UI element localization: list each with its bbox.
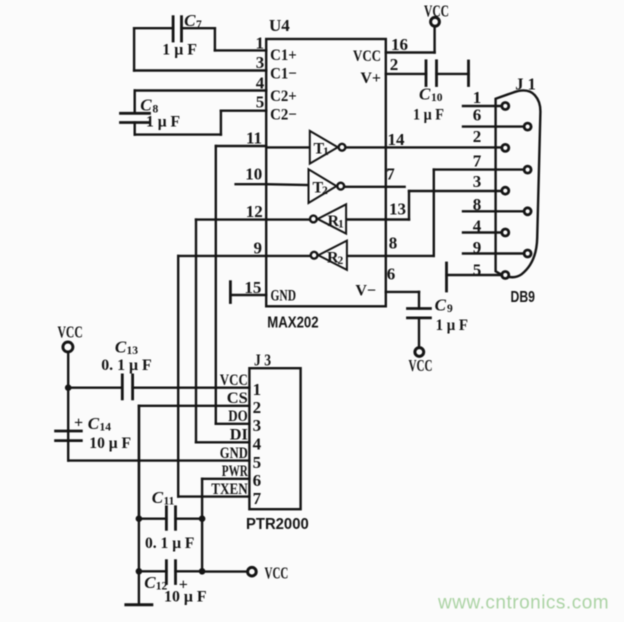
svg-text:10 μ F: 10 μ F: [164, 588, 207, 605]
svg-text:DO: DO: [228, 408, 248, 425]
svg-text:GND: GND: [220, 445, 248, 462]
svg-text:13: 13: [127, 345, 139, 357]
svg-text:14: 14: [100, 421, 112, 433]
svg-text:0. 1 μ F: 0. 1 μ F: [101, 357, 152, 374]
svg-text:C: C: [144, 573, 156, 592]
svg-text:1 μ F: 1 μ F: [162, 42, 197, 59]
svg-text:www.cntronics.com: www.cntronics.com: [437, 593, 609, 614]
svg-text:3: 3: [473, 172, 482, 191]
svg-text:8: 8: [389, 233, 398, 252]
svg-text:J 3: J 3: [254, 351, 271, 370]
svg-text:2: 2: [473, 127, 482, 146]
svg-text:4: 4: [253, 435, 262, 454]
svg-text:C: C: [115, 337, 127, 356]
svg-text:2: 2: [253, 398, 262, 417]
svg-text:11: 11: [246, 128, 262, 147]
svg-text:2: 2: [390, 55, 399, 74]
svg-text:1 μ F: 1 μ F: [413, 107, 444, 124]
svg-text:C: C: [88, 414, 100, 433]
svg-text:PWR: PWR: [222, 463, 248, 480]
svg-text:1: 1: [256, 34, 265, 53]
svg-text:10: 10: [431, 92, 443, 104]
svg-text:C: C: [419, 85, 431, 104]
svg-text:6: 6: [473, 106, 482, 125]
svg-text:5: 5: [253, 453, 262, 472]
svg-text:C: C: [184, 11, 196, 30]
svg-text:C: C: [152, 488, 164, 507]
svg-text:J 1: J 1: [515, 74, 536, 93]
svg-text:VCC: VCC: [265, 564, 289, 583]
svg-text:TXEN: TXEN: [211, 481, 248, 498]
svg-text:MAX202: MAX202: [267, 315, 318, 332]
svg-text:4: 4: [473, 216, 482, 235]
svg-text:0. 1 μ F: 0. 1 μ F: [145, 535, 195, 552]
svg-text:VCC: VCC: [220, 372, 248, 389]
svg-text:CS: CS: [227, 390, 248, 407]
svg-text:C2+: C2+: [270, 88, 297, 105]
svg-text:3: 3: [256, 53, 265, 72]
svg-text:14: 14: [388, 130, 406, 149]
svg-text:+: +: [74, 415, 83, 432]
svg-text:2: 2: [338, 255, 344, 267]
svg-text:DI: DI: [230, 427, 248, 444]
svg-text:15: 15: [244, 278, 261, 297]
svg-text:U4: U4: [269, 16, 290, 35]
svg-text:C: C: [140, 96, 152, 115]
svg-text:16: 16: [391, 35, 408, 54]
svg-text:1: 1: [338, 219, 344, 231]
svg-text:1: 1: [473, 88, 482, 107]
svg-text:VCC: VCC: [424, 2, 449, 21]
svg-text:6: 6: [387, 265, 396, 284]
svg-text:7: 7: [386, 164, 395, 183]
svg-text:V−: V−: [355, 283, 376, 300]
svg-text:5: 5: [256, 92, 265, 111]
svg-text:1 μ F: 1 μ F: [436, 317, 469, 334]
svg-text:9: 9: [254, 239, 263, 258]
svg-text:5: 5: [473, 261, 482, 280]
svg-text:1 μ F: 1 μ F: [146, 114, 180, 131]
svg-text:V+: V+: [360, 70, 381, 87]
svg-text:6: 6: [253, 471, 262, 490]
svg-text:7: 7: [253, 489, 262, 508]
svg-text:2: 2: [322, 185, 328, 197]
svg-text:7: 7: [473, 152, 482, 171]
svg-text:8: 8: [473, 195, 482, 214]
svg-text:C2−: C2−: [270, 106, 297, 123]
svg-text:GND: GND: [271, 288, 297, 305]
svg-text:7: 7: [196, 19, 202, 31]
svg-text:13: 13: [389, 200, 406, 219]
svg-text:11: 11: [164, 495, 175, 507]
svg-text:9: 9: [473, 238, 482, 257]
svg-text:3: 3: [253, 416, 262, 435]
svg-text:C: C: [435, 296, 447, 315]
svg-text:4: 4: [256, 74, 265, 93]
svg-text:12: 12: [246, 202, 263, 221]
svg-text:9: 9: [447, 303, 453, 315]
svg-text:VCC: VCC: [353, 48, 381, 65]
svg-text:DB9: DB9: [511, 289, 536, 306]
svg-text:VCC: VCC: [409, 356, 433, 375]
svg-text:10: 10: [245, 165, 262, 184]
svg-text:C1−: C1−: [270, 66, 297, 83]
svg-text:PTR2000: PTR2000: [246, 516, 309, 533]
svg-text:C1+: C1+: [270, 47, 297, 64]
svg-text:10 μ F: 10 μ F: [89, 435, 131, 452]
svg-text:VCC: VCC: [58, 323, 83, 342]
svg-text:1: 1: [323, 146, 329, 158]
svg-text:1: 1: [253, 380, 262, 399]
